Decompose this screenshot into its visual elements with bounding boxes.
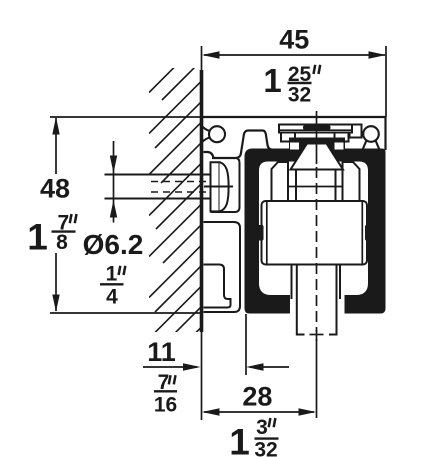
svg-text:28: 28: [242, 381, 272, 411]
svg-text:32: 32: [254, 439, 277, 457]
svg-text:8: 8: [56, 231, 68, 254]
svg-text:11: 11: [147, 337, 176, 367]
svg-text:48: 48: [40, 174, 70, 204]
svg-text:1: 1: [263, 62, 281, 99]
svg-text:16: 16: [154, 394, 177, 417]
svg-text:1: 1: [106, 263, 118, 286]
svg-text:4: 4: [106, 286, 118, 309]
svg-text:1: 1: [229, 422, 250, 457]
svg-text:3: 3: [256, 416, 268, 439]
svg-text:45: 45: [279, 25, 309, 55]
svg-text:32: 32: [288, 84, 311, 107]
svg-text:Ø6.2: Ø6.2: [83, 229, 144, 260]
svg-text:1: 1: [27, 217, 48, 258]
